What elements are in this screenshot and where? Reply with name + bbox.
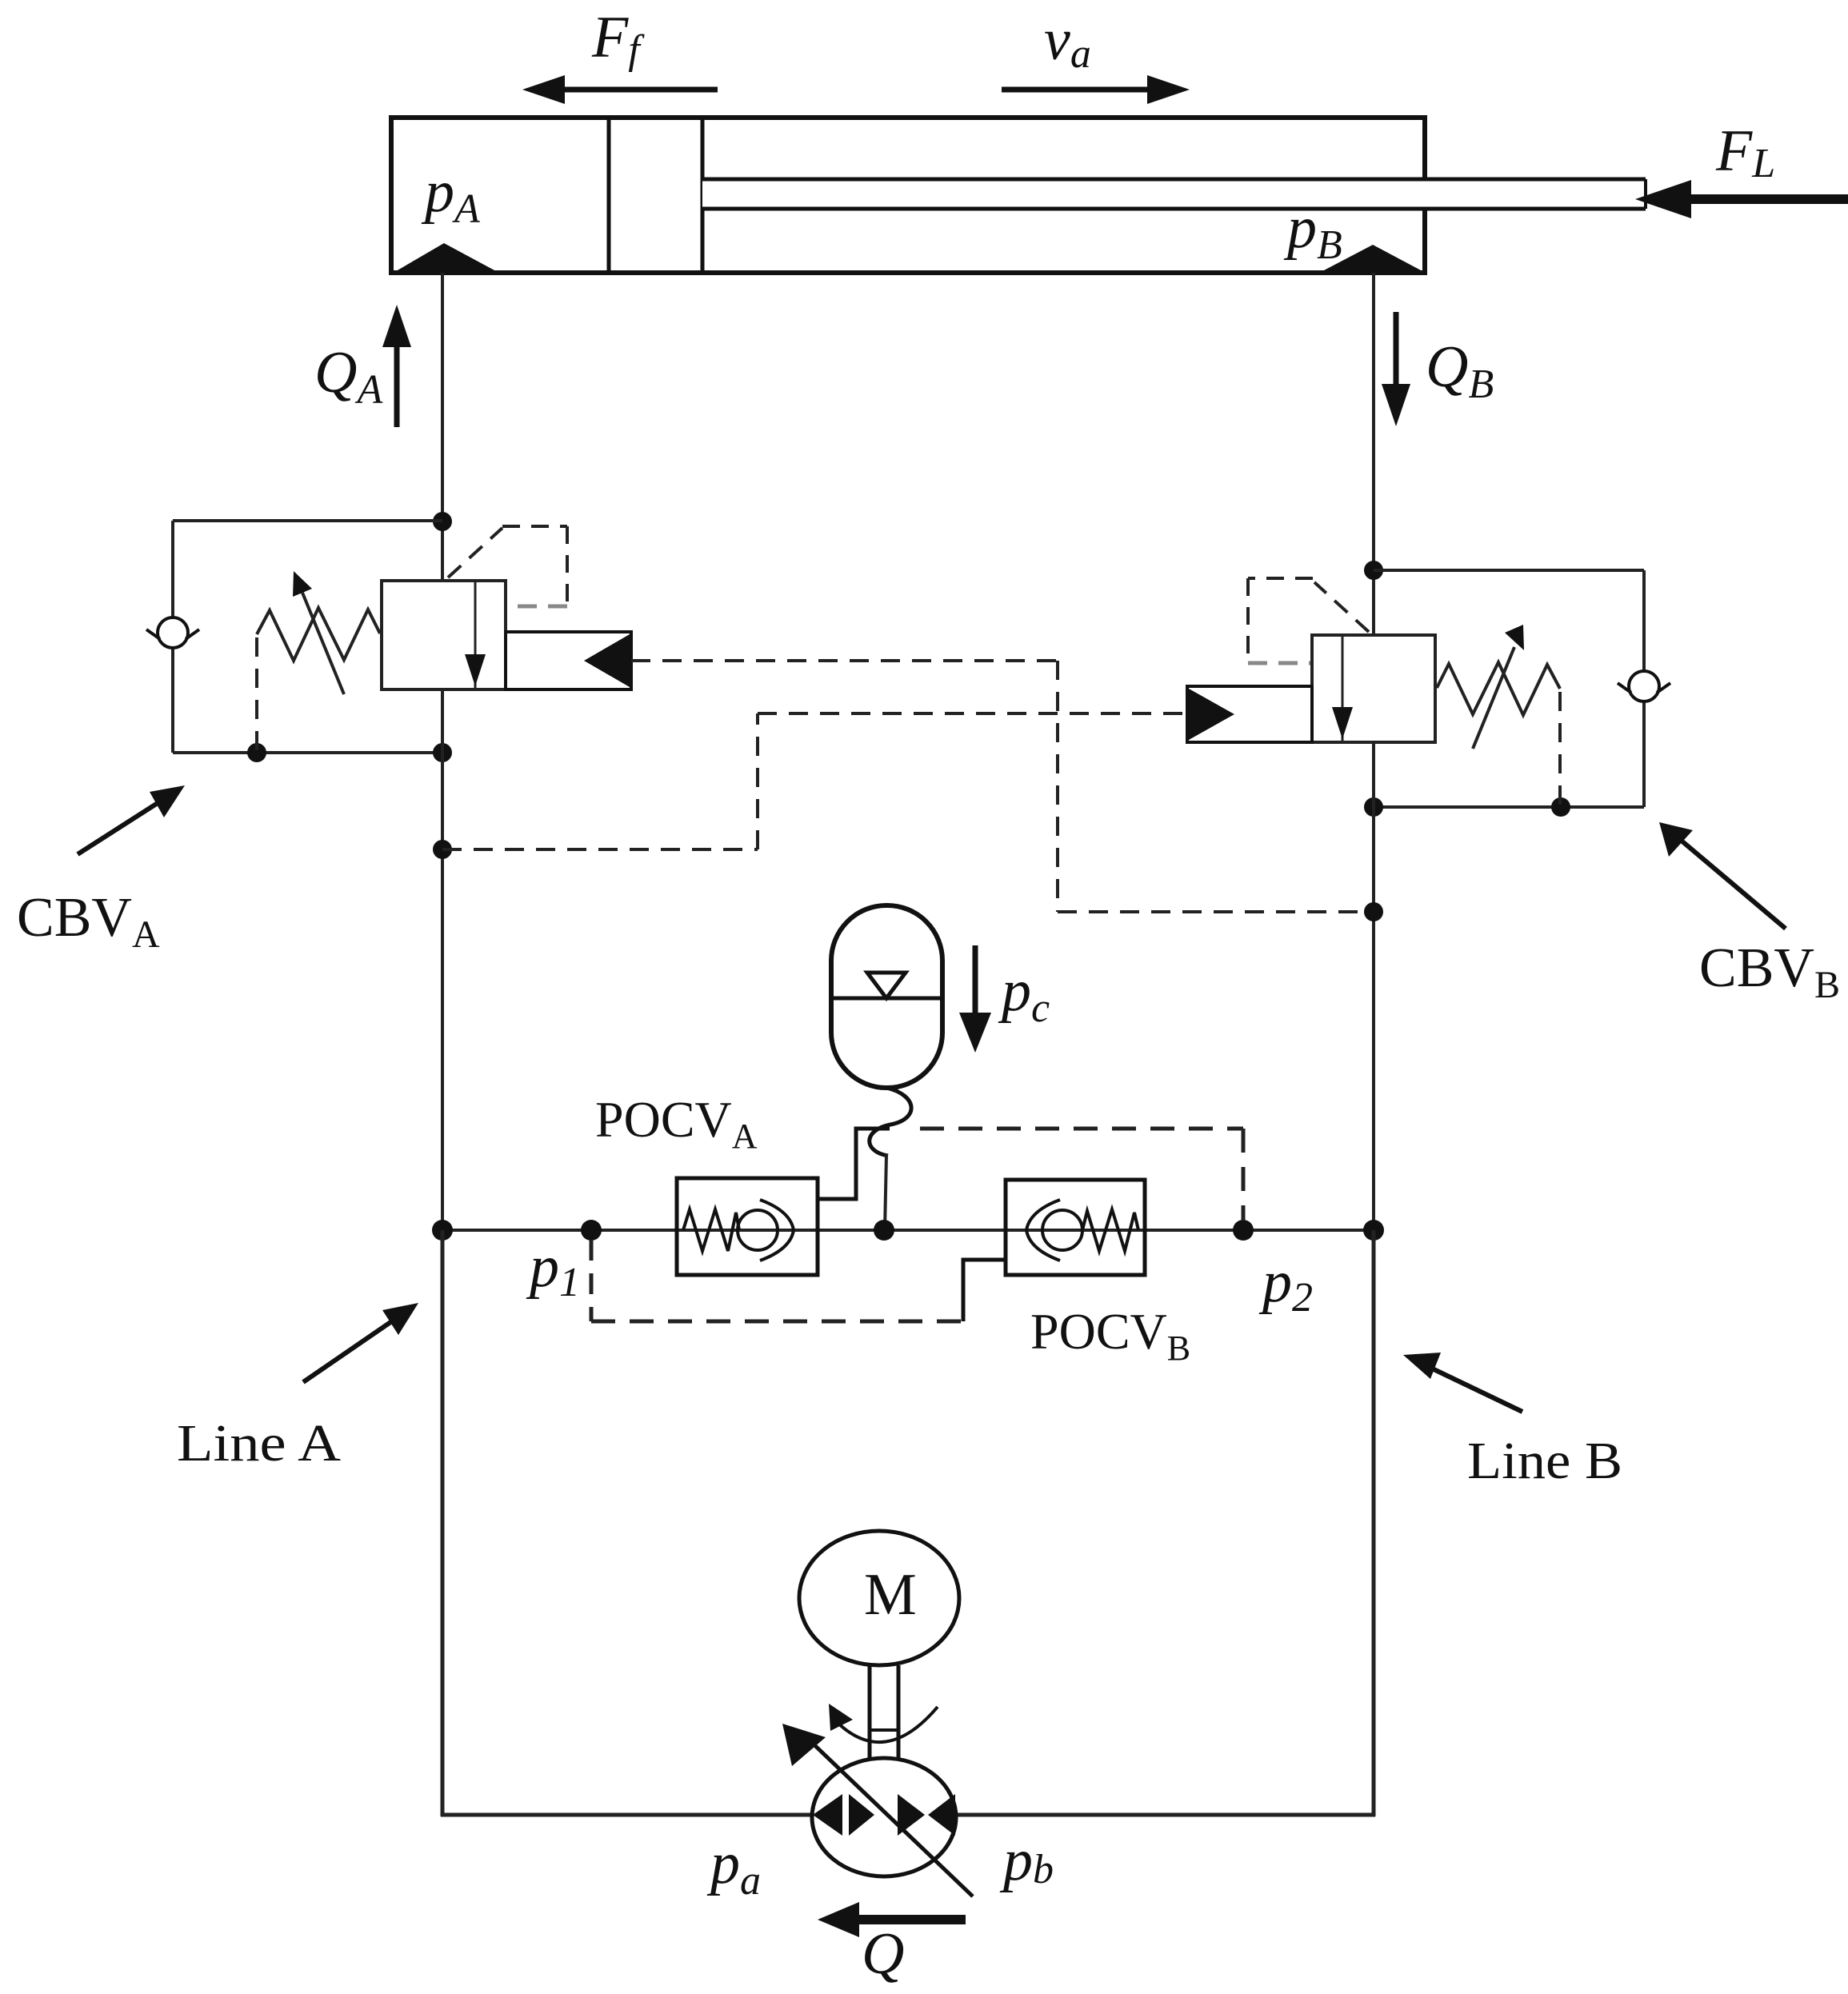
CBV_B valve divider (1342, 635, 1344, 742)
wire: Line B lower (1372, 1230, 1376, 1816)
wire: CBV_B bypass top horizontal (1374, 569, 1644, 572)
CBV_A spring drain dashed (255, 637, 258, 753)
CBV_B spring (adjustable) (1437, 662, 1560, 715)
va arrow (1002, 75, 1190, 104)
node: pilot tap dot on Line A (433, 840, 452, 859)
node: dot p2 (1233, 1220, 1254, 1241)
motor circle (799, 1531, 959, 1665)
accumulator hose squiggle (870, 1088, 911, 1156)
node: dot at drain junction CBV_A (247, 743, 266, 762)
wire: bottom right horizontal (954, 1813, 1375, 1817)
CBV_B spring drain dashed (1558, 692, 1562, 807)
svg-text:Q: Q (862, 1921, 904, 1987)
POCV_A pilot dashed to p2 (920, 1129, 1243, 1221)
wire: Line A lower (441, 1230, 445, 1816)
wire: Line A between CBV_A and pilot tap (441, 689, 444, 1230)
wire: CBV_B bypass bottom horizontal (1374, 805, 1644, 809)
wire: bottom left horizontal (441, 1813, 814, 1817)
piston rod (702, 181, 1646, 207)
CBV_B pilot dashed line from Line A (442, 713, 1184, 849)
pump flow triangles (813, 1794, 955, 1836)
POCV_B pilot elbow (963, 1260, 1006, 1321)
FL arrow (1635, 180, 1848, 218)
wire: accumulator drop to main line (885, 1154, 886, 1230)
POCV_B ball (1042, 1210, 1082, 1250)
CBV_A spring (adjustable) (257, 608, 380, 661)
POCV_A box (677, 1178, 818, 1275)
node: dot Line B / main line (1363, 1220, 1384, 1241)
CBV_A flow arrow (down) (465, 582, 486, 686)
pump variable arrow (782, 1724, 973, 1896)
port A triangle (396, 243, 496, 271)
check valve of CBV_B (circle with seat wings) (1618, 671, 1670, 701)
wire: CBV_A bypass bottom horizontal (173, 751, 442, 754)
POCV_B spring (1082, 1209, 1138, 1251)
wire: CBV_A bypass left vertical (171, 521, 174, 753)
port B triangle (1322, 245, 1422, 271)
wire: Line B from port B down (1372, 273, 1375, 635)
POCV_A spring (683, 1209, 739, 1251)
CBV_A pilot loop dashed (top) (448, 526, 567, 606)
CBV_B spring adjust arrow (1473, 625, 1524, 749)
cylinder barrel (391, 118, 1425, 273)
motor shaft (870, 1665, 898, 1759)
POCV_B pilot dashed to p1 (591, 1240, 963, 1321)
CBV_A spring adjust arrow (293, 571, 344, 694)
node: dot p1 (581, 1220, 602, 1241)
POCV_A ball (738, 1210, 778, 1250)
POCV_A pilot elbow (818, 1129, 890, 1199)
node: dot Line A / main line (432, 1220, 453, 1241)
svg-text:POCVB: POCVB (1030, 1303, 1190, 1368)
QA arrow (382, 305, 411, 427)
accumulator gas/fluid separator line (832, 997, 942, 1001)
node: dot bottom of CBV_A on Line A (433, 743, 452, 762)
pump circle (812, 1758, 956, 1876)
wire: Line B below CBV_B (1372, 742, 1375, 1230)
check valve of CBV_A (circle with seat wings) (146, 617, 199, 648)
main interline (p1-p2) (442, 1229, 1374, 1232)
wire: Line A from port A down to CBV_A (441, 273, 444, 581)
POCV_B seat (1026, 1200, 1060, 1261)
wire: CBV_A bypass top horizontal (173, 519, 442, 522)
rotation arc arrow (829, 1704, 938, 1742)
CBV_A valve divider (474, 581, 477, 689)
Line B pointer arrow (1403, 1353, 1522, 1412)
accumulator gas triangle (867, 973, 906, 998)
svg-text:M: M (864, 1562, 917, 1628)
CBV_A valve box (382, 581, 506, 689)
Q arrow (818, 1902, 966, 1937)
CBV_A pilot actuator box (506, 632, 631, 689)
node: junction dot top of CBV_A (433, 512, 452, 531)
node: dot at drain junction CBV_B (1551, 797, 1570, 817)
wire: CBV_B bypass right vertical (1642, 570, 1646, 807)
CBV_A pointer arrow (78, 785, 185, 854)
CBV_B actuator triangle (1189, 689, 1234, 740)
POCV_A seat (760, 1200, 794, 1261)
pc arrow (959, 945, 991, 1053)
CBV_B valve box (1312, 635, 1435, 742)
svg-text:Line A: Line A (177, 1414, 341, 1473)
POCV_B box (1006, 1180, 1145, 1275)
Ff arrow (522, 75, 718, 104)
CBV_A pilot dashed line from Line B (631, 661, 1368, 912)
QB arrow (1382, 312, 1410, 426)
svg-text:Line B: Line B (1467, 1432, 1622, 1490)
node: pilot tap dot on Line B (1364, 902, 1383, 921)
CBV_B flow arrow (down) (1332, 637, 1353, 739)
piston (607, 118, 611, 273)
accumulator body (831, 905, 942, 1088)
CBV_B pilot loop dashed (top) (1248, 578, 1369, 663)
CBV_A actuator triangle (584, 634, 630, 687)
CBV_B pilot actuator box (1187, 686, 1312, 742)
CBV_B pointer arrow (1659, 822, 1786, 929)
node: dot accumulator junction (874, 1220, 894, 1241)
node: junction dot top of CBV_B (1364, 561, 1383, 580)
Line A pointer arrow (303, 1303, 418, 1382)
node: dot bottom of CBV_B on Line B (1364, 797, 1383, 817)
